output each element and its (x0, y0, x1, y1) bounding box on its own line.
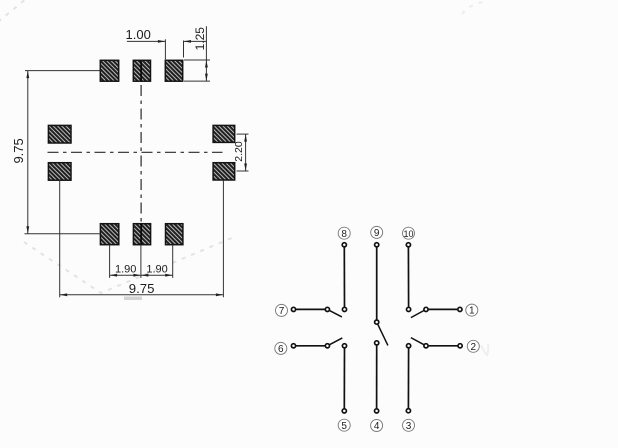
svg-text:1.90: 1.90 (146, 264, 167, 276)
svg-text:7: 7 (279, 306, 285, 317)
svg-text:9.75: 9.75 (129, 281, 155, 296)
svg-text:6: 6 (278, 344, 284, 355)
svg-text:4: 4 (374, 421, 380, 432)
svg-text:1.90: 1.90 (115, 264, 136, 276)
svg-text:1: 1 (469, 306, 475, 317)
svg-text:1.00: 1.00 (126, 27, 151, 42)
svg-text:8: 8 (341, 229, 347, 240)
svg-text:2: 2 (471, 342, 477, 353)
svg-text:5: 5 (341, 421, 347, 432)
svg-text:3: 3 (406, 421, 412, 432)
svg-text:9: 9 (374, 228, 380, 239)
svg-text:1.25: 1.25 (193, 27, 207, 51)
svg-text:2.20: 2.20 (233, 141, 245, 162)
svg-text:9.75: 9.75 (11, 138, 26, 163)
svg-text:10: 10 (403, 229, 413, 239)
